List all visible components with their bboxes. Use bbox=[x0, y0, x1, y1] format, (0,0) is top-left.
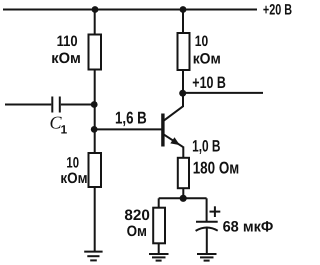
svg-text:кОм: кОм bbox=[60, 170, 87, 187]
svg-text:1,0 В: 1,0 В bbox=[192, 138, 220, 156]
svg-text:68 мкФ: 68 мкФ bbox=[223, 218, 274, 235]
svg-text:1: 1 bbox=[61, 123, 68, 137]
svg-text:Ом: Ом bbox=[127, 223, 147, 240]
svg-text:+10 В: +10 В bbox=[192, 74, 226, 92]
svg-text:1,6 В: 1,6 В bbox=[115, 108, 147, 127]
svg-text:110: 110 bbox=[57, 33, 78, 50]
svg-text:180 Ом: 180 Ом bbox=[193, 158, 240, 177]
svg-text:+20 В: +20 В bbox=[263, 1, 292, 18]
svg-text:10: 10 bbox=[195, 33, 208, 50]
svg-text:820: 820 bbox=[124, 207, 149, 224]
svg-text:кОм: кОм bbox=[193, 51, 221, 68]
svg-text:кОм: кОм bbox=[51, 50, 81, 67]
